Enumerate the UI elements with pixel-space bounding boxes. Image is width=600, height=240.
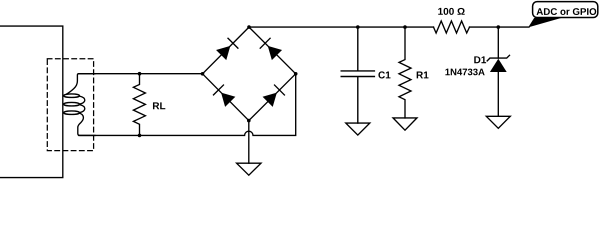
node bridge right <box>294 72 298 76</box>
label 1N4733A <box>445 69 484 76</box>
inductor L1 secondary coil <box>67 74 95 94</box>
label 100 ohm <box>438 8 464 15</box>
AC source box <box>0 26 63 178</box>
ground R1 <box>393 118 417 130</box>
label RL <box>153 102 165 109</box>
inductor L1 turn 2 <box>64 102 80 106</box>
wire D1 to ground <box>497 72 499 116</box>
bridge diode D-BL <box>213 85 235 107</box>
resistor R2 100 ohm <box>434 21 470 33</box>
bridge diode D-TR <box>260 38 282 60</box>
zener anode triangle D1 <box>490 59 507 72</box>
zener cathode bar D1 <box>487 55 510 62</box>
flag box ADC or GPIO <box>533 2 598 18</box>
inductor L1 turn 3 <box>64 111 80 115</box>
node R1 tap <box>403 25 407 29</box>
label C1 <box>378 71 390 78</box>
inductor L1 connector 1 <box>79 96 84 104</box>
wire top rail <box>249 26 529 28</box>
ground D1 <box>486 116 510 128</box>
node bridge bottom <box>247 119 251 123</box>
node bridge top <box>247 25 251 29</box>
label R1 <box>417 72 429 79</box>
resistor R1 <box>399 27 411 118</box>
capacitor C1 <box>341 27 374 123</box>
node C1 tap <box>356 25 360 29</box>
inductor L1 connector 2 <box>79 105 84 113</box>
bridge diode D-TL <box>216 38 238 60</box>
label D1 <box>474 56 486 63</box>
ground bridge <box>237 163 261 175</box>
node bridge left <box>201 72 205 76</box>
transformer boundary (dashed) <box>47 59 93 151</box>
resistor RL <box>133 74 145 136</box>
node RL bottom <box>138 134 142 138</box>
inductor L1 turn 1 <box>64 94 80 98</box>
zener diode D1 <box>497 27 499 58</box>
wire bottom secondary with hop over ground <box>79 74 296 136</box>
inductor L1 exit hook <box>78 113 95 135</box>
node RL top <box>138 72 142 76</box>
label ADC or GPIO <box>537 8 597 15</box>
flag pointer ADC <box>528 18 561 28</box>
bridge diode D-BR <box>263 85 285 107</box>
ground C1 <box>346 123 370 135</box>
wire top secondary to bridge <box>79 73 203 75</box>
bridge diamond wires <box>203 27 296 121</box>
node D1 tap <box>497 25 501 29</box>
wire bridge bottom to ground <box>248 121 250 164</box>
